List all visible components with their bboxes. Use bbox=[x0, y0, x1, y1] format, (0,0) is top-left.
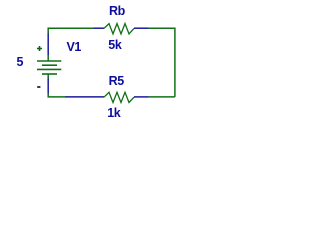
label 5 (source value) bbox=[17, 56, 24, 69]
battery minus sign bbox=[37, 86, 40, 88]
resistor R5 bbox=[104, 92, 134, 102]
wire blue vertical below battery bbox=[47, 78, 49, 93]
battery V1 top pin green bbox=[47, 55, 49, 61]
resistor Rb bbox=[104, 24, 134, 34]
wire top-right green bbox=[149, 27, 175, 29]
wire top blue segment left of Rb bbox=[94, 27, 105, 29]
battery V1 plate 3 long bbox=[37, 68, 61, 70]
label 1k bbox=[107, 107, 120, 120]
battery plus sign bbox=[37, 46, 42, 51]
wire top-left corner green bbox=[48, 28, 93, 34]
label R5 bbox=[109, 75, 124, 88]
wire blue segment right of Rb bbox=[134, 27, 149, 29]
label 5k bbox=[108, 39, 121, 52]
label Rb bbox=[109, 5, 125, 18]
wire blue vertical above battery bbox=[47, 34, 49, 56]
wire bottom-left green bbox=[48, 93, 65, 97]
battery V1 plate 4 short bbox=[42, 73, 57, 75]
wire bottom-right green bbox=[149, 96, 175, 98]
wire right vertical green bbox=[174, 28, 176, 97]
battery V1 bottom pin green bbox=[47, 74, 49, 79]
wire blue segment right of R5 bbox=[134, 96, 149, 98]
label V1 bbox=[67, 41, 82, 54]
battery V1 plate 1 long bbox=[37, 60, 61, 62]
battery V1 plate 2 short bbox=[42, 64, 57, 66]
wire blue segment left of R5 bbox=[65, 96, 104, 98]
